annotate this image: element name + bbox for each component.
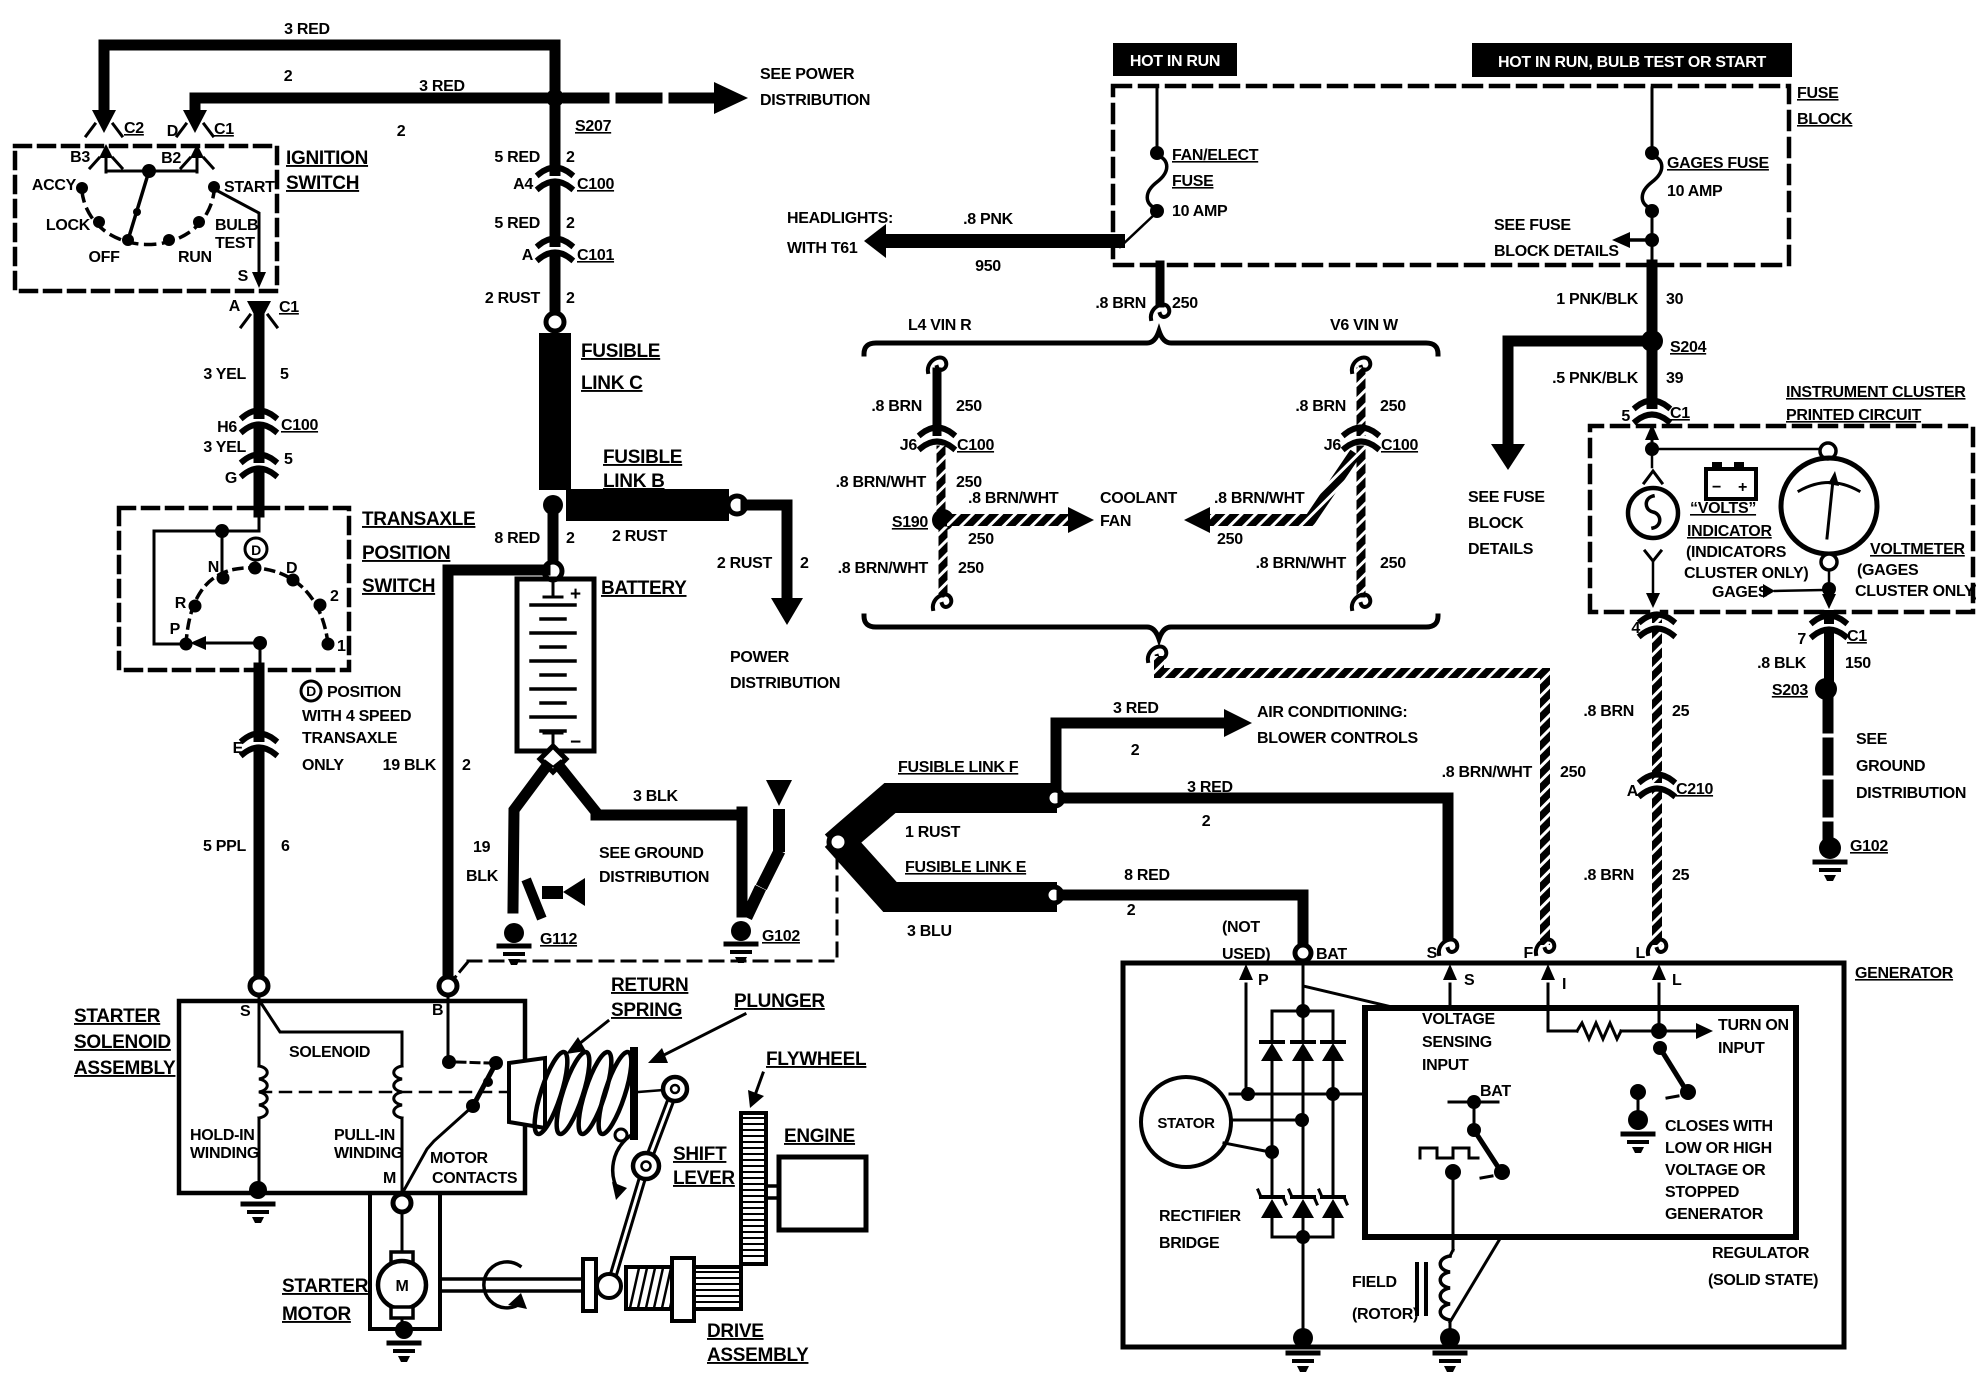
svg-text:FAN/ELECT: FAN/ELECT: [1172, 147, 1259, 164]
svg-text:START: START: [224, 179, 275, 196]
splice S204: [1641, 330, 1663, 352]
svg-text:HOT IN RUN, BULB TEST OR START: HOT IN RUN, BULB TEST OR START: [1498, 54, 1767, 71]
battery icon: [1706, 469, 1756, 499]
wire to voltmeter top: [1652, 448, 1820, 451]
svg-text:N: N: [208, 559, 219, 576]
junction of links B and C: [543, 495, 563, 515]
svg-text:DISTRIBUTION: DISTRIBUTION: [730, 675, 840, 692]
svg-text:VOLTAGE: VOLTAGE: [1422, 1011, 1495, 1028]
connector C100 pin H6: [243, 411, 275, 432]
wire .8 BRN to C210/L: [1652, 618, 1662, 940]
svg-text:DISTRIBUTION: DISTRIBUTION: [760, 92, 870, 109]
svg-text:C100: C100: [1381, 437, 1418, 454]
svg-text:C2: C2: [124, 120, 144, 137]
wire S190 down: [939, 531, 948, 593]
svg-text:B2: B2: [161, 150, 181, 167]
svg-text:A4: A4: [513, 176, 533, 193]
svg-text:TRANSAXLE: TRANSAXLE: [302, 730, 398, 747]
svg-text:BLK: BLK: [466, 868, 499, 885]
terminal F connector: [1536, 939, 1554, 954]
svg-text:.8 BRN: .8 BRN: [1095, 295, 1146, 312]
wire 3 RED to generator S: [1063, 798, 1448, 936]
svg-text:ENGINE: ENGINE: [784, 1126, 855, 1147]
svg-text:250: 250: [958, 560, 984, 577]
svg-text:TRANSAXLE: TRANSAXLE: [362, 509, 475, 530]
svg-text:3 RED: 3 RED: [284, 21, 330, 38]
svg-text:250: 250: [1560, 764, 1586, 781]
svg-text:G102: G102: [762, 928, 800, 945]
engine shaft: [766, 1184, 779, 1188]
svg-text:SOLENOID: SOLENOID: [289, 1044, 370, 1061]
svg-text:C1: C1: [279, 299, 299, 316]
svg-text:GENERATOR: GENERATOR: [1665, 1206, 1764, 1223]
svg-text:INSTRUMENT CLUSTER: INSTRUMENT CLUSTER: [1786, 384, 1966, 401]
brace L4/V6 group (top): [864, 331, 1438, 354]
ground (regulator L switch): [1637, 1092, 1640, 1112]
diode column x=1272: [1271, 1011, 1274, 1042]
svg-text:R: R: [175, 595, 187, 612]
svg-text:FAN: FAN: [1100, 513, 1131, 530]
shift lever: [610, 1089, 675, 1286]
svg-text:A: A: [1627, 783, 1639, 800]
svg-text:MOTOR: MOTOR: [430, 1150, 489, 1167]
svg-text:25: 25: [1672, 867, 1690, 884]
ground G112: [504, 923, 524, 943]
svg-text:D: D: [306, 683, 316, 699]
svg-text:S190: S190: [892, 514, 929, 531]
wire .8 BLK 150 to S203: [1824, 615, 1834, 678]
fuse GAGES 10A: [1651, 88, 1654, 153]
connector E: [243, 734, 275, 755]
svg-text:+: +: [1738, 479, 1747, 496]
svg-text:D: D: [251, 542, 261, 558]
contact LOCK: [93, 216, 105, 228]
generator box: [1123, 963, 1844, 1347]
wire V6 to coolant fan (arrow left): [1210, 458, 1352, 520]
svg-text:.8 BRN: .8 BRN: [1295, 398, 1346, 415]
svg-text:3 RED: 3 RED: [1113, 700, 1159, 717]
svg-text:VOLTAGE OR: VOLTAGE OR: [1665, 1162, 1766, 1179]
hold-in winding: [258, 995, 261, 1066]
generator internal ground (rectifier): [1293, 1328, 1313, 1348]
svg-text:950: 950: [975, 258, 1001, 275]
rotation arrow: [484, 1262, 521, 1308]
svg-text:B3: B3: [70, 149, 90, 166]
rotor wire with arrow to P: [253, 636, 267, 650]
svg-text:.8 BRN: .8 BRN: [1583, 867, 1634, 884]
svg-text:5 PPL: 5 PPL: [203, 838, 246, 855]
svg-text:1: 1: [337, 638, 346, 655]
stator: [1141, 1077, 1231, 1167]
svg-text:E: E: [233, 740, 244, 757]
terminal B3 arrow: [105, 152, 108, 172]
svg-text:(SOLID STATE): (SOLID STATE): [1708, 1272, 1818, 1289]
svg-text:VOLTMETER: VOLTMETER: [1870, 541, 1966, 558]
svg-text:SWITCH: SWITCH: [362, 576, 435, 597]
connector G: [243, 455, 275, 476]
stator phase wires: [1230, 1093, 1364, 1096]
svg-text:250: 250: [1380, 398, 1406, 415]
svg-text:B: B: [432, 1002, 443, 1019]
svg-text:SEE POWER: SEE POWER: [760, 66, 855, 83]
svg-text:250: 250: [1380, 555, 1406, 572]
flywheel ring gear: [741, 1113, 766, 1264]
contact OFF: [122, 234, 134, 246]
svg-text:C100: C100: [281, 417, 318, 434]
svg-text:P: P: [1258, 972, 1269, 989]
svg-text:LOCK: LOCK: [46, 217, 91, 234]
diode column x=1303: [1302, 1011, 1305, 1042]
svg-text:2 RUST: 2 RUST: [485, 290, 541, 307]
node circle right of fusible link B: [728, 496, 746, 514]
wire 5 RED vertical to fusible link C: [550, 45, 561, 322]
svg-text:INPUT: INPUT: [1422, 1057, 1469, 1074]
ground G102 (right): [1819, 837, 1841, 859]
svg-text:SWITCH: SWITCH: [286, 173, 359, 194]
svg-text:.8 BRN/WHT: .8 BRN/WHT: [1256, 555, 1347, 572]
svg-text:BLOCK: BLOCK: [1797, 111, 1853, 128]
wire .8 BRN/WHT to generator F: [1148, 646, 1166, 661]
svg-text:RETURN: RETURN: [611, 975, 688, 996]
svg-text:5 RED: 5 RED: [494, 215, 540, 232]
shaft flange: [583, 1259, 596, 1311]
connector C1 pin 5: [1636, 401, 1668, 422]
wire 3 RED (D-C1 feed): [195, 98, 552, 113]
connector C100 pin J6 (V6): [1345, 428, 1377, 449]
dashed ground wire to G102: [1823, 701, 1834, 838]
svg-text:2: 2: [566, 215, 575, 232]
wire S190 to coolant fan (arrow): [953, 514, 1068, 526]
note D position with 4 speed: [301, 681, 321, 701]
svg-text:(GAGES: (GAGES: [1857, 562, 1919, 579]
svg-text:P: P: [170, 621, 181, 638]
node: link F output circle: [1047, 790, 1063, 806]
svg-text:HOLD-IN: HOLD-IN: [190, 1127, 255, 1144]
dashed ground net to solenoid B and fusible links: [468, 853, 837, 961]
contact 1: [322, 638, 335, 651]
wire battery to solenoid B: [448, 570, 545, 978]
svg-text:10 AMP: 10 AMP: [1172, 203, 1228, 220]
wire .8 BRN 250 below fuse block: [1156, 265, 1165, 303]
svg-text:INDICATOR: INDICATOR: [1687, 523, 1772, 540]
drive flange: [672, 1258, 694, 1321]
svg-text:.8 BRN/WHT: .8 BRN/WHT: [836, 474, 927, 491]
svg-text:REGULATOR: REGULATOR: [1712, 1245, 1810, 1262]
header HOT IN RUN: [1113, 43, 1237, 76]
ignition switch dashed box: [15, 146, 277, 291]
connector C101 pin A: [539, 239, 571, 260]
svg-text:HEADLIGHTS:: HEADLIGHTS:: [787, 210, 893, 227]
rectifier bridge: [1302, 961, 1305, 1011]
plunger body: [509, 1058, 545, 1128]
svg-text:(ROTOR): (ROTOR): [1352, 1306, 1418, 1323]
ignition rotor arm: [128, 171, 149, 240]
svg-text:2 RUST: 2 RUST: [612, 528, 668, 545]
wire .8 PNK to headlights: [884, 234, 1118, 248]
svg-text:FLYWHEEL: FLYWHEEL: [766, 1049, 867, 1070]
svg-text:−: −: [1712, 479, 1721, 496]
svg-text:WINDING: WINDING: [190, 1145, 259, 1162]
wire 3 RED (C2 feed): [104, 45, 555, 113]
svg-text:V6 VIN W: V6 VIN W: [1330, 317, 1399, 334]
svg-text:SHIFT: SHIFT: [673, 1144, 727, 1165]
svg-text:C101: C101: [577, 247, 614, 264]
rectifier bottom bus: [1272, 1236, 1333, 1239]
drive clutch (hatched): [626, 1267, 674, 1309]
svg-text:GENERATOR: GENERATOR: [1855, 965, 1954, 982]
ground G102: [731, 921, 751, 941]
svg-text:+: +: [570, 584, 581, 605]
svg-text:3 RED: 3 RED: [1187, 779, 1233, 796]
svg-text:.8 PNK: .8 PNK: [963, 211, 1014, 228]
svg-text:2: 2: [284, 68, 293, 85]
svg-text:SEE FUSE: SEE FUSE: [1494, 217, 1571, 234]
svg-text:L: L: [1636, 945, 1646, 962]
splice S203: [1815, 678, 1837, 700]
battery B1: [517, 579, 594, 751]
fusible link junction node: [829, 833, 847, 851]
svg-text:BATTERY: BATTERY: [601, 578, 687, 599]
connector C1 pin D: [183, 110, 207, 133]
node circle above fusible link C: [546, 313, 564, 331]
svg-text:FUSIBLE: FUSIBLE: [581, 341, 660, 362]
circled D indicator: [245, 538, 267, 560]
svg-text:L4 VIN R: L4 VIN R: [908, 317, 972, 334]
terminal B2 arrow: [196, 152, 199, 172]
motor contacts switch: [447, 995, 450, 1062]
fusible link C: [539, 333, 571, 490]
svg-text:2: 2: [1127, 902, 1136, 919]
svg-text:RUN: RUN: [178, 249, 212, 266]
svg-text:GROUND: GROUND: [1856, 758, 1925, 775]
svg-text:G: G: [225, 470, 237, 487]
svg-text:S: S: [238, 268, 249, 285]
header HOT IN RUN, BULB TEST OR START: [1472, 43, 1792, 77]
svg-text:FUSIBLE LINK E: FUSIBLE LINK E: [905, 859, 1027, 876]
svg-text:MOTOR: MOTOR: [282, 1304, 351, 1325]
svg-text:BLOCK DETAILS: BLOCK DETAILS: [1494, 243, 1619, 260]
svg-text:DISTRIBUTION: DISTRIBUTION: [599, 869, 709, 886]
svg-text:SEE: SEE: [1856, 731, 1888, 748]
svg-text:250: 250: [956, 398, 982, 415]
svg-text:5 RED: 5 RED: [494, 149, 540, 166]
svg-text:2: 2: [566, 149, 575, 166]
svg-text:TEST: TEST: [215, 235, 255, 252]
svg-text:FUSIBLE: FUSIBLE: [603, 447, 682, 468]
svg-text:BRIDGE: BRIDGE: [1159, 1235, 1220, 1252]
terminal P arrow (not used): [1245, 984, 1248, 1094]
svg-text:SPRING: SPRING: [611, 1000, 682, 1021]
svg-text:.8 BRN/WHT: .8 BRN/WHT: [838, 560, 929, 577]
contact ACCY: [76, 182, 88, 194]
wire B3-B2 bus: [106, 170, 197, 173]
svg-text:ASSEMBLY: ASSEMBLY: [707, 1345, 809, 1366]
svg-text:S207: S207: [575, 118, 612, 135]
svg-text:FUSIBLE LINK F: FUSIBLE LINK F: [898, 759, 1019, 776]
BAT sense wire into regulator: [1303, 961, 1396, 1008]
svg-text:C1: C1: [214, 121, 234, 138]
wire START to S terminal: [214, 189, 259, 276]
svg-text:LINK C: LINK C: [581, 373, 643, 394]
splice S207: [546, 89, 564, 107]
battery positive node: [544, 562, 562, 580]
terminal BAT node: [1295, 945, 1311, 961]
svg-text:2 RUST: 2 RUST: [717, 555, 773, 572]
svg-text:ONLY: ONLY: [302, 757, 344, 774]
terminal S connector: [1439, 939, 1457, 954]
wire branch to fuse block details: [1508, 341, 1645, 448]
svg-text:J6: J6: [1324, 437, 1342, 454]
svg-text:−: −: [570, 732, 581, 753]
svg-text:.8 BRN: .8 BRN: [871, 398, 922, 415]
svg-text:G112: G112: [540, 931, 577, 948]
svg-text:(INDICATORS: (INDICATORS: [1686, 544, 1787, 561]
svg-text:8 RED: 8 RED: [494, 530, 540, 547]
link plunger to shift lever: [638, 1090, 664, 1092]
svg-text:DETAILS: DETAILS: [1468, 541, 1534, 558]
svg-text:D: D: [167, 123, 178, 140]
resistor and turn-on input: [1548, 1030, 1577, 1033]
svg-text:F: F: [1524, 945, 1534, 962]
svg-text:.5 PNK/BLK: .5 PNK/BLK: [1552, 370, 1639, 387]
svg-text:HOT IN RUN: HOT IN RUN: [1130, 53, 1220, 70]
svg-text:FUSE: FUSE: [1172, 173, 1214, 190]
svg-text:RECTIFIER: RECTIFIER: [1159, 1208, 1241, 1225]
svg-text:250: 250: [956, 474, 982, 491]
svg-text:WITH 4 SPEED: WITH 4 SPEED: [302, 708, 411, 725]
return spring coils: [528, 1049, 574, 1137]
svg-text:POSITION: POSITION: [327, 684, 401, 701]
svg-text:2: 2: [462, 757, 471, 774]
field return wire: [1450, 1237, 1501, 1322]
svg-text:LINK B: LINK B: [603, 471, 665, 492]
svg-text:3 BLU: 3 BLU: [907, 923, 952, 940]
svg-text:BAT: BAT: [1316, 946, 1347, 963]
brace L4/V6 group (bottom): [864, 616, 1438, 639]
svg-text:S203: S203: [1772, 682, 1809, 699]
svg-text:BULB: BULB: [215, 217, 258, 234]
svg-text:A: A: [229, 298, 241, 315]
ignition detent arc: [82, 192, 214, 245]
battery negative node (diamond): [540, 746, 566, 772]
svg-text:CLUSTER ONLY): CLUSTER ONLY): [1855, 583, 1976, 600]
voltmeter M2: [1781, 458, 1877, 554]
contact N: [217, 572, 230, 585]
svg-text:3 YEL: 3 YEL: [203, 439, 246, 456]
switch feed wiring: [154, 512, 259, 644]
svg-text:IGNITION: IGNITION: [286, 148, 368, 169]
svg-text:M: M: [395, 1278, 408, 1295]
terminal L connector: [1648, 939, 1666, 954]
wire 3 BLK to G102: [560, 767, 742, 815]
motor shaft: [442, 1277, 584, 1281]
pinion gear (striped): [694, 1267, 741, 1309]
svg-text:250: 250: [1217, 531, 1243, 548]
svg-text:1 RUST: 1 RUST: [905, 824, 961, 841]
connector C210 pin A: [1641, 775, 1673, 796]
svg-text:STARTER: STARTER: [74, 1006, 161, 1027]
plunger mechanical dashed link: [260, 1091, 508, 1094]
svg-text:25: 25: [1672, 703, 1690, 720]
wire fuse to headlights feed: [1120, 214, 1155, 247]
fuse FAN/ELECT 10A: [1156, 88, 1159, 153]
svg-text:GAGES: GAGES: [1712, 584, 1769, 601]
contact 2: [314, 599, 327, 612]
svg-text:CLUSTER ONLY): CLUSTER ONLY): [1684, 565, 1808, 582]
svg-text:BLOCK: BLOCK: [1468, 515, 1524, 532]
engine box: [779, 1157, 866, 1230]
svg-text:POSITION: POSITION: [362, 543, 450, 564]
svg-text:250: 250: [1172, 295, 1198, 312]
wire 3 YEL: [254, 318, 265, 512]
see ground distribution arrow (19 BLK): [542, 886, 563, 899]
fusible link B: [566, 489, 729, 521]
terminal B node: [439, 977, 457, 995]
svg-text:S: S: [1427, 945, 1438, 962]
V6 chain: [1352, 357, 1370, 372]
contact START: [208, 181, 220, 193]
svg-text:CONTACTS: CONTACTS: [432, 1170, 518, 1187]
svg-text:6: 6: [281, 838, 290, 855]
svg-text:PLUNGER: PLUNGER: [734, 991, 825, 1012]
svg-text:GAGES FUSE: GAGES FUSE: [1667, 155, 1770, 172]
svg-text:.8 BLK: .8 BLK: [1757, 655, 1807, 672]
contact D (right): [287, 574, 300, 587]
svg-text:PRINTED CIRCUIT: PRINTED CIRCUIT: [1786, 407, 1922, 424]
svg-text:D: D: [286, 560, 297, 577]
svg-text:7: 7: [1797, 631, 1806, 648]
svg-text:BLOWER CONTROLS: BLOWER CONTROLS: [1257, 730, 1418, 747]
svg-text:(NOT: (NOT: [1222, 919, 1260, 936]
wire .8 BRN/WHT to S190: [937, 450, 946, 510]
svg-text:.8 BRN/WHT: .8 BRN/WHT: [1442, 764, 1533, 781]
svg-text:SEE FUSE: SEE FUSE: [1468, 489, 1545, 506]
connector C100 pin J6 (L4): [921, 428, 953, 449]
svg-text:ACCY: ACCY: [32, 177, 77, 194]
svg-text:“VOLTS”: “VOLTS”: [1690, 500, 1756, 517]
svg-text:COOLANT: COOLANT: [1100, 490, 1178, 507]
svg-text:250: 250: [968, 531, 994, 548]
contact RUN: [163, 234, 175, 246]
svg-text:.8 BRN/WHT: .8 BRN/WHT: [968, 490, 1059, 507]
svg-text:STOPPED: STOPPED: [1665, 1184, 1739, 1201]
square wave symbol: [1420, 1148, 1478, 1158]
regulator L switch: [1653, 1041, 1667, 1055]
wire 5 PPL: [254, 668, 265, 978]
pull-in winding: [261, 1003, 402, 1066]
svg-text:SEE GROUND: SEE GROUND: [599, 845, 704, 862]
svg-text:2: 2: [397, 123, 406, 140]
svg-text:POWER: POWER: [730, 649, 790, 666]
node: link E output circle: [1046, 887, 1062, 903]
svg-text:J6: J6: [900, 437, 918, 454]
terminal arrows inside generator: [1449, 984, 1452, 1008]
svg-text:10 AMP: 10 AMP: [1667, 183, 1723, 200]
starter motor housing: [368, 1193, 372, 1329]
contact P: [180, 638, 193, 651]
svg-text:2: 2: [566, 530, 575, 547]
svg-text:SENSING: SENSING: [1422, 1034, 1492, 1051]
svg-text:PULL-IN: PULL-IN: [334, 1127, 395, 1144]
connector C1 pin A: [247, 301, 271, 324]
solenoid ground: [249, 1181, 267, 1199]
svg-text:M: M: [383, 1170, 396, 1187]
wire 1 PNK/BLK: [1647, 265, 1658, 407]
svg-text:1 PNK/BLK: 1 PNK/BLK: [1556, 291, 1638, 308]
svg-text:L: L: [1672, 972, 1682, 989]
wire link junction to battery: [548, 505, 559, 562]
cluster feed wire with arrow: [1651, 432, 1654, 447]
